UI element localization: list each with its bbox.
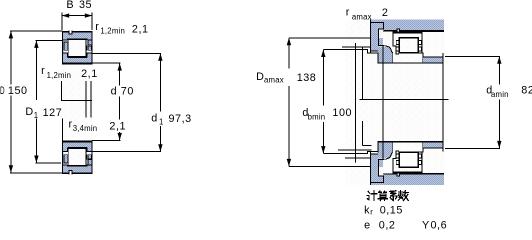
svg-text:D: D xyxy=(25,106,33,118)
svg-text:1,2min: 1,2min xyxy=(100,27,125,36)
D connector top xyxy=(10,30,63,32)
svg-text:138: 138 xyxy=(297,72,317,84)
damin connector top xyxy=(445,55,500,57)
svg-text:0,6: 0,6 xyxy=(431,219,448,231)
inner ring left flange top xyxy=(63,53,68,57)
svg-text:82: 82 xyxy=(521,84,532,96)
svg-text:3,4min: 3,4min xyxy=(73,124,98,133)
dbmin connector bottom xyxy=(323,151,378,153)
svg-text:150: 150 xyxy=(8,85,28,97)
Damax connector top xyxy=(289,37,371,39)
svg-text:35: 35 xyxy=(79,0,92,11)
svg-text:1: 1 xyxy=(34,111,38,120)
D dimension line xyxy=(10,31,12,173)
D connector bottom xyxy=(10,172,63,174)
cage bits xyxy=(396,40,399,44)
svg-text:2,1: 2,1 xyxy=(109,120,126,132)
svg-text:r: r xyxy=(41,65,45,77)
D1 dimension line xyxy=(35,41,37,163)
roller xyxy=(399,38,418,53)
svg-text:k: k xyxy=(364,204,370,216)
B arrows xyxy=(62,13,69,17)
svg-text:r: r xyxy=(346,7,350,19)
svg-text:amax: amax xyxy=(264,75,284,84)
shoulder outlines xyxy=(370,20,372,53)
bearing upper half body xyxy=(63,32,93,64)
glyph 算 xyxy=(378,191,387,201)
shaft break lines xyxy=(355,43,357,163)
right drawing lower half (mirror) xyxy=(370,141,444,185)
inner ring raceway line xyxy=(68,57,87,59)
shaft surface line xyxy=(378,62,444,63)
svg-text:e: e xyxy=(364,219,370,231)
shoulder relief groove xyxy=(379,30,383,38)
shaft end vertical line xyxy=(442,53,444,151)
r1,2 leader lines xyxy=(62,81,92,101)
svg-text:amax: amax xyxy=(352,12,372,21)
bore thick line xyxy=(63,63,93,65)
svg-text:2: 2 xyxy=(382,7,388,19)
D1 connector bottom xyxy=(35,162,61,164)
roller xyxy=(68,39,87,56)
bearing body white xyxy=(393,32,423,63)
d connector bottom xyxy=(92,139,120,141)
inner ring right flange top xyxy=(87,53,92,57)
glyph 系 xyxy=(390,191,398,201)
r3,4 leader line xyxy=(61,119,63,141)
d connector top xyxy=(92,62,120,64)
Damax connector bottom xyxy=(289,165,371,167)
white gap below right cage xyxy=(87,51,92,53)
d1 connector top xyxy=(93,52,161,54)
svg-text:B: B xyxy=(66,0,73,11)
white gap left above cage xyxy=(63,41,67,42)
svg-text:r: r xyxy=(370,207,373,216)
svg-text:0,15: 0,15 xyxy=(380,205,403,217)
outer ring bottom line left segment xyxy=(63,39,68,41)
right cage block xyxy=(88,46,91,50)
svg-text:d: d xyxy=(111,86,117,98)
B dimension extension lines xyxy=(62,12,92,30)
outer ring right flange xyxy=(88,40,92,45)
dbmin connector top xyxy=(323,50,377,53)
svg-text:D: D xyxy=(0,85,5,97)
Damax dimension line xyxy=(288,38,290,167)
d dimension line xyxy=(119,63,121,140)
angle ring white xyxy=(384,32,393,46)
glyph 计 xyxy=(367,191,377,201)
svg-text:97,3: 97,3 xyxy=(169,113,192,125)
housing shoulder block xyxy=(371,20,384,51)
svg-text:2,1: 2,1 xyxy=(81,68,98,80)
svg-text:100: 100 xyxy=(332,107,352,119)
svg-text:amin: amin xyxy=(491,90,509,99)
right drawing texture panel xyxy=(345,20,445,186)
dbmin dimension line xyxy=(322,50,324,154)
housing bore line xyxy=(383,30,444,32)
table header 计算系数 (drawn glyphs) xyxy=(367,191,409,201)
damin dimension line xyxy=(498,56,500,148)
svg-text:2,1: 2,1 xyxy=(132,23,149,35)
glyph 数 xyxy=(398,191,408,201)
bearing left profile xyxy=(393,32,399,54)
white gap right of roller xyxy=(87,40,92,45)
shaft band right xyxy=(423,56,443,62)
left cage block xyxy=(64,42,68,50)
svg-text:d: d xyxy=(151,112,157,124)
svg-text:127: 127 xyxy=(43,107,63,119)
damin connector bottom xyxy=(445,147,500,149)
bearing right profile xyxy=(418,32,423,63)
d1 connector bottom xyxy=(93,151,161,153)
svg-text:r: r xyxy=(95,21,99,33)
spacer outlines xyxy=(377,52,379,62)
svg-text:70: 70 xyxy=(121,86,134,98)
svg-text:D: D xyxy=(256,71,264,83)
svg-text:Y: Y xyxy=(422,219,429,231)
svg-text:1,2min: 1,2min xyxy=(47,71,72,80)
B dimension line xyxy=(62,15,92,17)
svg-text:bmin: bmin xyxy=(308,113,326,122)
D1 connector top xyxy=(35,40,62,42)
left drawing texture panel xyxy=(62,31,94,175)
svg-text:1: 1 xyxy=(159,117,163,126)
bearing top edge thick xyxy=(394,32,423,34)
top notch xyxy=(69,31,73,35)
housing band xyxy=(370,20,444,31)
bearing notch xyxy=(397,29,400,32)
svg-text:0,2: 0,2 xyxy=(379,219,396,231)
bearing lower half (mirror) xyxy=(63,141,93,174)
white gap below left cage xyxy=(63,51,67,53)
d1 dimension line xyxy=(159,53,161,151)
spacer ring xyxy=(378,46,393,62)
